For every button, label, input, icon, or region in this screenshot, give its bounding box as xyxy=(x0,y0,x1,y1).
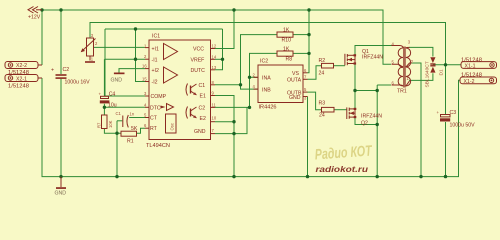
svg-text:SBL1640CT: SBL1640CT xyxy=(425,61,431,87)
svg-text:X1-1: X1-1 xyxy=(465,63,476,69)
svg-text:Q2: Q2 xyxy=(361,121,368,127)
svg-text:X1-2: X1-2 xyxy=(464,79,475,85)
svg-text:1/51248: 1/51248 xyxy=(461,73,482,79)
svg-text:+12V: +12V xyxy=(28,15,41,21)
svg-text:VS: VS xyxy=(292,71,299,77)
svg-text:+: + xyxy=(51,68,54,74)
svg-text:IC2: IC2 xyxy=(260,59,268,65)
svg-text:VREF: VREF xyxy=(191,57,205,63)
svg-text:-I2: -I2 xyxy=(152,80,158,86)
svg-text:R1: R1 xyxy=(127,139,134,145)
svg-text:DUTC: DUTC xyxy=(191,68,206,74)
svg-text:10: 10 xyxy=(212,116,217,121)
svg-text:IR4426: IR4426 xyxy=(259,105,277,111)
svg-text:-I1: -I1 xyxy=(152,57,158,63)
svg-text:E1: E1 xyxy=(200,94,206,100)
svg-text:R10: R10 xyxy=(282,38,292,44)
svg-text:12: 12 xyxy=(212,44,217,49)
svg-text:C1: C1 xyxy=(116,111,122,116)
svg-text:13: 13 xyxy=(212,65,217,70)
svg-text:1000u 16V: 1000u 16V xyxy=(65,80,91,86)
svg-text:VCC: VCC xyxy=(193,47,204,53)
svg-text:GND: GND xyxy=(111,78,123,84)
svg-text:24: 24 xyxy=(319,113,325,119)
svg-text:C3: C3 xyxy=(450,110,457,116)
svg-text:GND: GND xyxy=(194,129,206,135)
svg-text:C2: C2 xyxy=(199,105,206,111)
svg-text:5K: 5K xyxy=(131,126,138,132)
svg-text:10u: 10u xyxy=(108,103,117,109)
svg-text:16: 16 xyxy=(142,64,147,69)
svg-text:X2-1: X2-1 xyxy=(16,77,27,83)
svg-text:E2: E2 xyxy=(200,116,206,122)
svg-text:INB: INB xyxy=(262,87,271,93)
svg-text:COMP: COMP xyxy=(151,94,167,100)
svg-text:1/51248: 1/51248 xyxy=(8,70,29,76)
svg-text:TL494CN: TL494CN xyxy=(146,143,170,149)
svg-text:RT: RT xyxy=(150,126,158,132)
svg-text:Osc: Osc xyxy=(170,123,175,130)
svg-text:X2-2: X2-2 xyxy=(16,63,27,69)
svg-text:R8: R8 xyxy=(286,57,293,63)
svg-text:1/51248: 1/51248 xyxy=(8,84,29,90)
svg-text:GND: GND xyxy=(55,191,67,197)
svg-text:24: 24 xyxy=(319,71,325,77)
svg-text:IRFZ44N: IRFZ44N xyxy=(361,114,382,120)
svg-text:CT: CT xyxy=(150,116,158,122)
svg-text:1K: 1K xyxy=(283,28,290,34)
svg-text:D1: D1 xyxy=(439,69,445,75)
svg-text:R7: R7 xyxy=(97,122,102,128)
svg-text:IC1: IC1 xyxy=(152,34,160,40)
svg-text:R3: R3 xyxy=(319,101,326,107)
svg-text:10K: 10K xyxy=(108,120,113,128)
svg-text:INA: INA xyxy=(262,76,271,82)
svg-text:C4: C4 xyxy=(109,92,116,98)
svg-text:IRFZ44N: IRFZ44N xyxy=(362,55,383,61)
svg-text:1n: 1n xyxy=(130,112,135,117)
svg-text:+I2: +I2 xyxy=(152,68,159,74)
svg-text:R2: R2 xyxy=(319,58,326,64)
svg-text:TR1: TR1 xyxy=(397,89,407,95)
svg-text:15: 15 xyxy=(142,77,147,82)
svg-text:C2: C2 xyxy=(63,67,70,73)
svg-text:1000u 50V: 1000u 50V xyxy=(450,123,476,129)
svg-text:14: 14 xyxy=(212,54,217,59)
svg-text:DTC: DTC xyxy=(150,105,161,111)
svg-text:GND: GND xyxy=(289,95,301,101)
svg-text:OUTA: OUTA xyxy=(287,78,302,84)
svg-text:11: 11 xyxy=(212,102,217,107)
svg-text:radiokot.ru: radiokot.ru xyxy=(316,164,369,174)
svg-text:C1: C1 xyxy=(199,83,206,89)
svg-text:+I1: +I1 xyxy=(152,47,159,53)
svg-text:1K: 1K xyxy=(283,47,290,53)
